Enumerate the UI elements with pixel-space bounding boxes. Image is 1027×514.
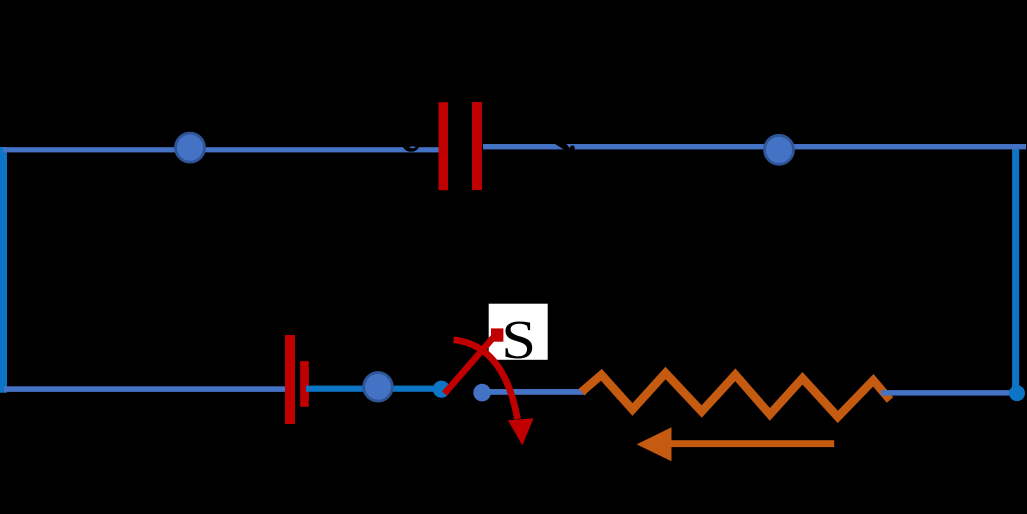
switch pivot dot (433, 381, 450, 398)
switch motion arrowhead (508, 418, 534, 445)
switch lever (445, 336, 496, 394)
hidden label glyph over top-right wire (552, 142, 575, 154)
switch motion curved arrow (454, 340, 518, 419)
capacitor C (left plate) (439, 102, 449, 190)
wire left vertical (0, 147, 7, 393)
node E (bottom-right junction dot) (1009, 385, 1025, 401)
node A (top-left junction dot) (176, 133, 205, 162)
switch lever end square (491, 328, 503, 341)
wire right vertical (1012, 145, 1019, 394)
wire top-left segment (3, 147, 439, 152)
label S text (501, 308, 536, 370)
node C (bottom junction dot) (364, 373, 393, 402)
wire battery to switch (azure) (306, 386, 440, 392)
wire bottom-left segment (4, 386, 290, 392)
wire resistor to right vertical (881, 390, 1013, 396)
resistor R zigzag (582, 373, 891, 417)
battery (short plate) (300, 361, 309, 407)
node B (top-right junction dot) (765, 135, 794, 164)
node D (switch right contact dot) (473, 384, 491, 402)
hidden label glyph over top-left wire (402, 133, 421, 152)
label S background box (489, 304, 548, 360)
svg-text:S: S (501, 308, 536, 370)
wire switch to resistor (482, 389, 586, 395)
wire top-right segment (483, 144, 1026, 149)
capacitor C (right plate) (472, 102, 482, 190)
current direction arrow under resistor (637, 427, 835, 461)
battery (long plate) (285, 335, 295, 424)
